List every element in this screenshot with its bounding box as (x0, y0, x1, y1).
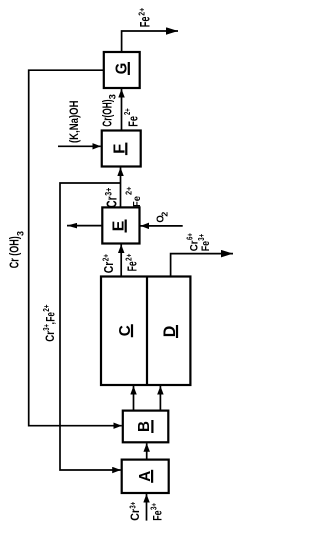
svg-text:Fe: Fe (45, 312, 57, 322)
svg-text:3: 3 (108, 94, 118, 99)
svg-text:Fe: Fe (150, 510, 164, 521)
svg-text:6+: 6+ (186, 233, 195, 240)
svg-text:Fe: Fe (125, 261, 140, 271)
svg-text:2+: 2+ (101, 254, 111, 261)
svg-text:Cr: Cr (130, 509, 142, 521)
svg-text:2+: 2+ (122, 108, 132, 115)
svg-text:Fe: Fe (136, 16, 152, 27)
svg-text:Fe: Fe (131, 196, 143, 207)
svg-text:3+: 3+ (148, 503, 158, 510)
svg-text:3+: 3+ (103, 188, 113, 196)
svg-text:Fe: Fe (200, 241, 212, 251)
svg-text:3+: 3+ (127, 502, 137, 509)
svg-text:3+: 3+ (197, 234, 206, 241)
svg-text:Fe: Fe (125, 116, 140, 127)
svg-text:2+: 2+ (41, 304, 51, 311)
svg-text:Cr (OH): Cr (OH) (7, 236, 21, 268)
svg-text:(K,Na)OH: (K,Na)OH (69, 101, 81, 144)
svg-text:2+: 2+ (137, 8, 147, 16)
svg-text:Cr: Cr (45, 331, 57, 342)
svg-text:2+: 2+ (125, 186, 134, 195)
svg-text:3: 3 (15, 231, 26, 236)
svg-text:2: 2 (161, 211, 170, 217)
svg-text:B: B (136, 421, 153, 432)
svg-text:Cr(OH): Cr(OH) (101, 100, 115, 127)
svg-text:Cr: Cr (105, 196, 121, 208)
svg-text:Cr: Cr (101, 262, 116, 274)
svg-text:2+: 2+ (124, 254, 134, 261)
